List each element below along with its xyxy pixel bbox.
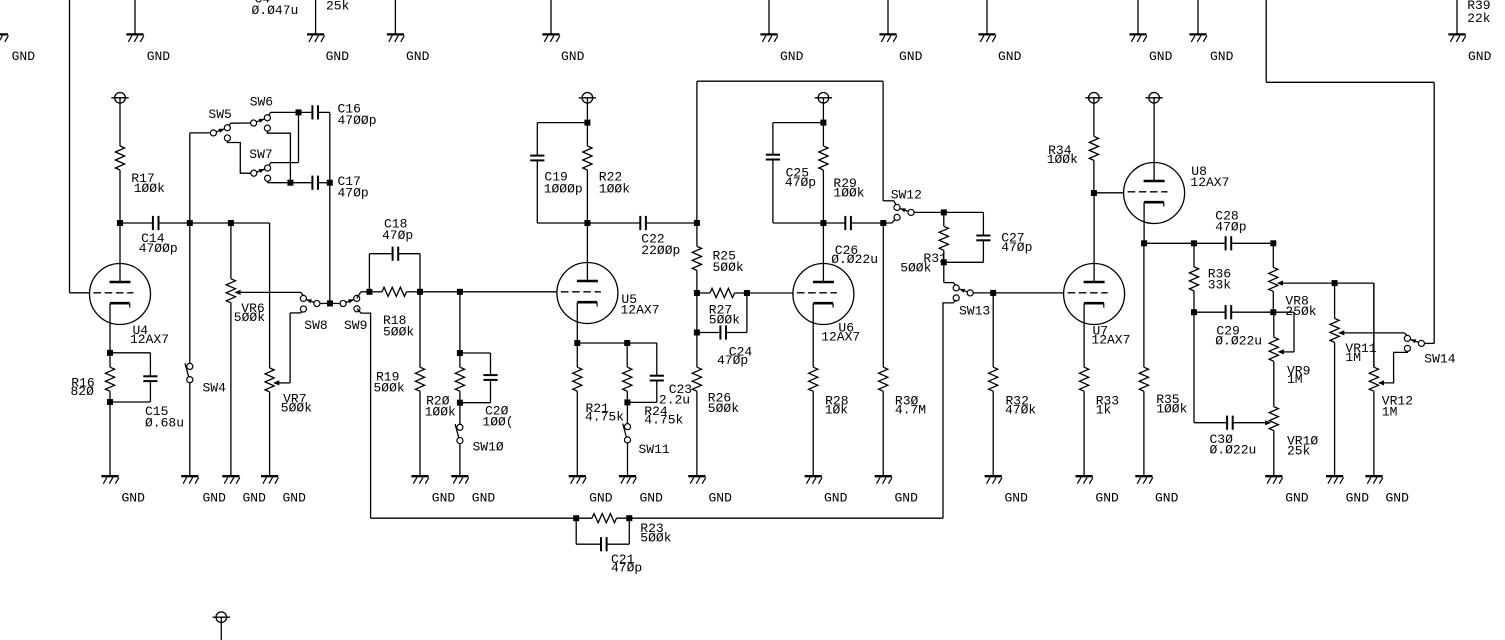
svg-text:5ØØk: 5ØØk — [374, 380, 405, 395]
svg-text:GND: GND — [1346, 491, 1370, 506]
svg-text:1M: 1M — [1345, 350, 1361, 365]
svg-text:5ØØk: 5ØØk — [281, 400, 312, 415]
svg-text:5ØØk: 5ØØk — [713, 260, 744, 275]
svg-text:25k: 25k — [326, 0, 350, 14]
svg-text:Ø.Ø47u: Ø.Ø47u — [252, 3, 299, 18]
svg-text:4.75k: 4.75k — [585, 410, 624, 425]
svg-text:GND: GND — [998, 49, 1022, 64]
svg-text:47Øp: 47Øp — [717, 353, 748, 368]
svg-text:1M: 1M — [1287, 372, 1303, 387]
svg-text:47ØØp: 47ØØp — [338, 113, 377, 128]
svg-text:SW5: SW5 — [208, 107, 231, 122]
svg-text:GND: GND — [1095, 491, 1119, 506]
svg-text:SW6: SW6 — [250, 94, 273, 109]
svg-text:GND: GND — [283, 491, 307, 506]
svg-text:1ØØØp: 1ØØØp — [544, 181, 583, 196]
svg-text:25Øk: 25Øk — [1285, 304, 1316, 319]
svg-text:Ø.68u: Ø.68u — [145, 415, 184, 430]
svg-text:1Øk: 1Øk — [825, 402, 849, 417]
svg-text:5ØØk: 5ØØk — [640, 531, 671, 546]
svg-text:GND: GND — [432, 491, 456, 506]
svg-text:GND: GND — [122, 491, 146, 506]
svg-text:GND: GND — [326, 49, 350, 64]
svg-text:SW7: SW7 — [249, 147, 272, 162]
svg-text:GND: GND — [640, 491, 664, 506]
svg-text:GND: GND — [147, 49, 171, 64]
svg-text:5ØØk: 5ØØk — [708, 401, 739, 416]
svg-text:5ØØk: 5ØØk — [234, 310, 265, 325]
svg-text:SW14: SW14 — [1424, 352, 1455, 367]
svg-text:47Øp: 47Øp — [382, 228, 413, 243]
svg-text:SW4: SW4 — [203, 380, 227, 395]
svg-text:25k: 25k — [1287, 443, 1311, 458]
svg-text:SW9: SW9 — [344, 318, 367, 333]
svg-text:2.2u: 2.2u — [659, 393, 690, 408]
svg-text:12AX7: 12AX7 — [1190, 175, 1229, 190]
svg-text:GND: GND — [1210, 49, 1234, 64]
svg-text:22k: 22k — [1467, 11, 1491, 26]
svg-text:5ØØk: 5ØØk — [383, 324, 414, 339]
svg-text:47Øp: 47Øp — [611, 560, 642, 575]
svg-text:GND: GND — [561, 49, 585, 64]
svg-text:1k: 1k — [1096, 402, 1112, 417]
svg-text:1ØØk: 1ØØk — [425, 404, 456, 419]
svg-text:22ØØp: 22ØØp — [641, 243, 680, 258]
svg-text:GND: GND — [895, 491, 919, 506]
svg-text:12AX7: 12AX7 — [821, 329, 860, 344]
svg-text:GND: GND — [1285, 491, 1309, 506]
svg-text:SW8: SW8 — [304, 318, 327, 333]
svg-text:1ØØk: 1ØØk — [1156, 401, 1187, 416]
svg-text:47Øk: 47Øk — [1005, 402, 1036, 417]
svg-text:GND: GND — [472, 491, 496, 506]
svg-text:33k: 33k — [1208, 277, 1232, 292]
svg-text:GND: GND — [406, 49, 430, 64]
svg-text:Ø.Ø22u: Ø.Ø22u — [1215, 333, 1262, 348]
svg-text:GND: GND — [203, 491, 227, 506]
svg-text:Ø.Ø22u: Ø.Ø22u — [1210, 442, 1257, 457]
svg-text:Ø.Ø22u: Ø.Ø22u — [831, 252, 878, 267]
svg-text:47ØØp: 47ØØp — [139, 241, 178, 256]
svg-text:1M: 1M — [1382, 404, 1398, 419]
svg-text:47Øp: 47Øp — [338, 186, 369, 201]
svg-text:SW11: SW11 — [639, 442, 670, 457]
svg-text:SW12: SW12 — [891, 188, 922, 203]
svg-text:GND: GND — [1005, 491, 1029, 506]
svg-text:GND: GND — [1149, 49, 1173, 64]
svg-text:47Øp: 47Øp — [1215, 219, 1246, 234]
svg-text:GND: GND — [780, 49, 804, 64]
svg-text:GND: GND — [1386, 491, 1410, 506]
svg-text:5ØØk: 5ØØk — [709, 313, 740, 328]
svg-text:SW13: SW13 — [959, 304, 990, 319]
svg-text:GND: GND — [824, 491, 848, 506]
svg-text:GND: GND — [709, 491, 733, 506]
svg-text:1ØØ(: 1ØØ( — [482, 415, 513, 430]
svg-text:5ØØk: 5ØØk — [900, 260, 931, 275]
svg-text:1ØØk: 1ØØk — [1047, 152, 1078, 167]
svg-text:4.75k: 4.75k — [644, 413, 683, 428]
svg-text:SW1Ø: SW1Ø — [473, 440, 504, 455]
svg-text:GND: GND — [899, 49, 923, 64]
svg-text:1ØØk: 1ØØk — [833, 185, 864, 200]
svg-text:12AX7: 12AX7 — [621, 303, 660, 318]
svg-text:1ØØk: 1ØØk — [599, 181, 630, 196]
svg-text:12AX7: 12AX7 — [1091, 332, 1130, 347]
svg-text:GND: GND — [243, 491, 267, 506]
svg-text:GND: GND — [589, 491, 613, 506]
svg-text:47Øp: 47Øp — [785, 175, 816, 190]
svg-text:1ØØk: 1ØØk — [134, 181, 165, 196]
svg-text:4.7M: 4.7M — [895, 402, 926, 417]
svg-text:12AX7: 12AX7 — [130, 332, 169, 347]
svg-text:GND: GND — [1155, 491, 1179, 506]
svg-text:47Øp: 47Øp — [1001, 240, 1032, 255]
svg-text:GND: GND — [12, 49, 36, 64]
svg-text:82Ø: 82Ø — [71, 384, 95, 399]
svg-text:GND: GND — [1468, 49, 1492, 64]
